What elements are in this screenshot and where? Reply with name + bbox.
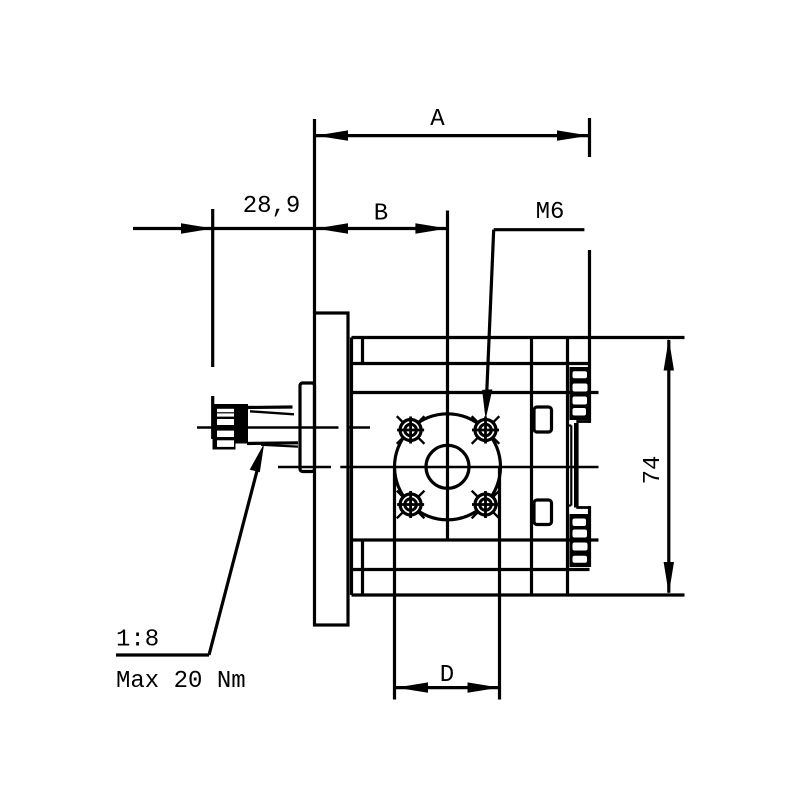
- shaft axis centerline seg1: [197, 426, 339, 429]
- shaft key line: [250, 411, 294, 414]
- rear cover recess inner line: [570, 426, 572, 506]
- body vertical step x=362.5 lower: [361, 540, 364, 595]
- shaft collar: [300, 383, 315, 472]
- body vertical x=567.5: [566, 338, 569, 596]
- center hole: [426, 445, 469, 488]
- shaft bottom inner line: [261, 445, 298, 447]
- body bottom edge: [352, 593, 590, 596]
- body top line extended to 74 dim: [590, 336, 685, 339]
- tapered shaft top edge: [247, 405, 293, 409]
- M6 leader line: [486, 230, 493, 403]
- taper leader line: [209, 467, 258, 655]
- taper leader shelf: [116, 653, 209, 656]
- flange: [315, 313, 349, 625]
- horizontal centerline of front face seg1: [278, 466, 331, 469]
- port lower: [534, 500, 552, 525]
- rear cover recess edge: [574, 423, 579, 508]
- tapered shaft bottom edge: [247, 441, 298, 445]
- svg-text:28,9: 28,9: [243, 193, 301, 220]
- dimension D line: [396, 686, 500, 689]
- body vertical step x=362.5 upper: [361, 338, 364, 364]
- extension line left (A/B datum): [313, 119, 316, 313]
- dimension 74 line: [667, 340, 670, 593]
- dimension B line with 28,9 overrun: [133, 227, 447, 230]
- taper leader arrow: [250, 443, 265, 472]
- svg-text:B: B: [374, 201, 388, 228]
- body left edge: [350, 338, 353, 596]
- body horizontal line y=392.5 (front square top): [352, 391, 599, 394]
- bolt hole top-right: [472, 416, 500, 444]
- vertical centerline of front face: [446, 211, 449, 541]
- rear bolt head upper: [570, 367, 590, 420]
- rear cover recess step lower: [576, 506, 589, 509]
- bolt hole top-left: [397, 416, 425, 444]
- rear cover tick lower: [568, 504, 572, 506]
- front square right edge + D extension: [498, 466, 501, 700]
- extension line shaft end (28,9) lower segment: [211, 396, 214, 439]
- dimension 74 top arrow: [664, 339, 674, 371]
- svg-text:1:8: 1:8: [116, 627, 159, 654]
- extension line shaft end (28,9) upper segment: [211, 209, 214, 367]
- body vertical x=531.5: [530, 338, 533, 596]
- svg-text:M6: M6: [536, 199, 565, 226]
- bolt hole bottom-right: [472, 491, 500, 519]
- svg-text:A: A: [430, 106, 445, 133]
- dimension 28,9 arrow: [181, 223, 213, 233]
- body horizontal line y=569.5: [352, 568, 590, 571]
- dimension B right arrow: [415, 223, 447, 233]
- dimension D right arrow: [468, 682, 500, 692]
- dimension 74 bottom arrow: [664, 562, 674, 594]
- bolt hole bottom-left: [397, 491, 425, 519]
- M6 leader shelf: [494, 228, 585, 231]
- body horizontal line y=363.5: [352, 362, 590, 365]
- svg-text:Max 20 Nm: Max 20 Nm: [116, 668, 246, 695]
- rear bolt head lower: [570, 514, 590, 567]
- svg-text:D: D: [440, 662, 454, 689]
- M6 leader arrow: [482, 389, 492, 419]
- dimension A line: [316, 134, 590, 137]
- svg-text:74: 74: [640, 456, 667, 485]
- rear cover tick upper: [568, 424, 572, 426]
- extension line right (A) upper segment: [588, 118, 591, 157]
- shaft nut: [213, 404, 249, 450]
- body right edge lower: [588, 506, 591, 567]
- dimension A left arrow: [316, 130, 348, 140]
- horizontal centerline of front face seg2: [340, 466, 598, 469]
- rear cover recess step upper: [576, 420, 589, 423]
- front square left edge + D extension: [393, 466, 396, 700]
- body right edge upper: [588, 338, 591, 424]
- port upper: [534, 407, 552, 432]
- shaft axis centerline seg2: [348, 426, 370, 429]
- body top edge: [352, 336, 590, 339]
- body horizontal line y=540 (front square bottom): [352, 538, 599, 541]
- extension line right (A) lower segment: [588, 250, 591, 338]
- body bottom line extended to 74 dim: [590, 593, 685, 596]
- mounting face circle: [395, 414, 501, 520]
- dimension A right arrow: [557, 130, 589, 140]
- dimension B left arrow: [316, 223, 348, 233]
- dimension D left arrow: [396, 682, 428, 692]
